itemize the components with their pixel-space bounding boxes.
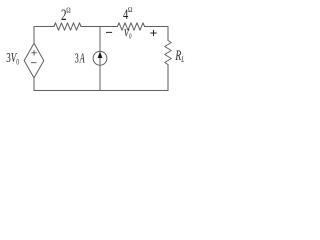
resistor RL zigzag — [165, 41, 172, 65]
resistor R 4ohm zigzag — [118, 23, 145, 30]
wire bottom rail — [34, 90, 168, 92]
source plus sign — [32, 51, 37, 56]
current source 3A circle — [93, 51, 107, 65]
wire middle-upper segment — [99, 27, 101, 52]
svg-text:Ω: Ω — [66, 7, 70, 15]
wire left-lower segment — [33, 78, 35, 91]
polarity minus of V0 — [106, 31, 111, 33]
resistor R 2ohm zigzag — [54, 23, 81, 30]
current source arrow shaft — [99, 56, 101, 64]
current source arrow head — [98, 51, 103, 58]
wire top-right segment — [145, 27, 169, 41]
wire top-left segment — [34, 27, 54, 44]
svg-text:3: 3 — [75, 51, 79, 65]
polarity plus of V0 — [151, 30, 157, 36]
wire middle-lower segment — [99, 65, 101, 90]
source minus sign — [31, 62, 36, 64]
wire right-lower segment — [167, 65, 169, 91]
dependent voltage source 3V0 diamond — [24, 43, 44, 78]
svg-text:Ω: Ω — [128, 6, 132, 14]
wire top-middle segment — [81, 26, 118, 28]
svg-text:A: A — [79, 51, 85, 65]
